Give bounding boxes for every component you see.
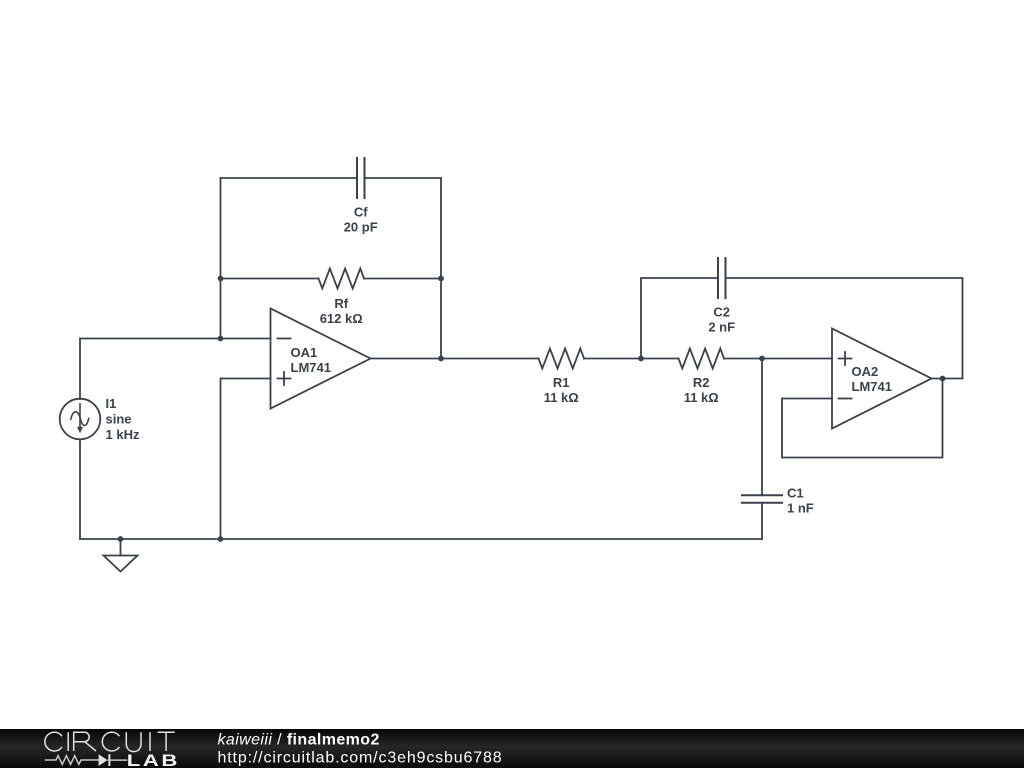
svg-text:I1: I1 (106, 396, 117, 411)
svg-text:2 nF: 2 nF (708, 320, 735, 335)
svg-text:OA1: OA1 (291, 345, 318, 360)
node A: inverting input junction (218, 336, 224, 342)
wire: Cf top left (221, 177, 358, 179)
svg-text:R1: R1 (553, 375, 570, 390)
node: R1-R2 junction (638, 356, 644, 362)
wire: Rf left (221, 278, 319, 280)
wire: OA1 minus input row (80, 338, 271, 340)
label R2 value (684, 375, 719, 405)
svg-text:1 nF: 1 nF (787, 501, 814, 516)
wire: C2 right to output column (726, 278, 963, 379)
op-amp OA2 (832, 329, 932, 429)
svg-text:11 kΩ: 11 kΩ (684, 390, 719, 405)
label C1 value (787, 486, 814, 516)
label I1 (106, 396, 140, 442)
wire: R2 to OA2 plus input (724, 358, 832, 360)
svg-text:612 kΩ: 612 kΩ (320, 311, 363, 326)
svg-text:OA2: OA2 (852, 364, 879, 379)
ground (104, 539, 138, 572)
node: ground junction (118, 536, 124, 542)
wire: OA2 output (932, 378, 963, 380)
label Cf value (344, 205, 378, 235)
wire: C1 bottom to rail (761, 503, 763, 539)
svg-text:LM741: LM741 (852, 379, 892, 394)
wire: OA1 output (371, 358, 539, 360)
node: OA1 output junction (438, 356, 444, 362)
capacitor Cf (357, 158, 365, 198)
wire: left column up to feedback (220, 178, 222, 339)
resistor Rf (319, 269, 365, 289)
wire: source bottom vertical (79, 440, 81, 539)
label Rf value (320, 296, 363, 326)
label OA2 (852, 364, 892, 394)
node: OA2 output junction (940, 376, 946, 382)
svg-text:C2: C2 (713, 305, 730, 320)
svg-text:Cf: Cf (354, 205, 368, 220)
wire: OA1 plus input (221, 379, 271, 540)
CircuitLab logo text CIRCUIT (hand-drawn thin letters) (45, 732, 175, 751)
svg-text:LAB: LAB (127, 751, 180, 768)
node: Rf left junction (218, 276, 224, 282)
svg-text:Rf: Rf (334, 296, 348, 311)
svg-text:kaiweiii / finalmemo2: kaiweiii / finalmemo2 (218, 732, 380, 749)
label C2 value (708, 305, 735, 335)
label OA1 (291, 345, 331, 375)
CircuitLab logo resistor-diode glyph (45, 754, 128, 766)
wire: Cf top right (365, 177, 442, 179)
svg-text:sine: sine (106, 412, 132, 427)
svg-text:http://circuitlab.com/c3eh9csb: http://circuitlab.com/c3eh9csbu6788 (218, 750, 503, 767)
wire: Cf right vertical down (440, 178, 442, 359)
wire: bottom ground rail (80, 538, 762, 540)
wire: Rf right (364, 278, 441, 280)
wire: source top vertical (79, 339, 81, 400)
label R1 value (544, 375, 579, 405)
svg-text:C1: C1 (787, 486, 804, 501)
current source I1 (60, 399, 101, 440)
svg-text:1 kHz: 1 kHz (106, 427, 140, 442)
wire: C1 branch top (761, 359, 763, 496)
op-amp OA1 (271, 309, 371, 409)
svg-text:R2: R2 (693, 375, 710, 390)
capacitor C2 (718, 258, 726, 298)
node: Rf right junction (438, 276, 444, 282)
wire: R1 to R2 (584, 358, 679, 360)
resistor R2 (679, 349, 724, 369)
svg-text:LM741: LM741 (291, 360, 331, 375)
node: plus input to ground rail (218, 536, 224, 542)
resistor R1 (539, 349, 584, 369)
wire: C2 branch up and left (641, 278, 718, 359)
svg-text:11 kΩ: 11 kΩ (544, 390, 579, 405)
node: R2 output junction (759, 356, 765, 362)
svg-text:20 pF: 20 pF (344, 220, 378, 235)
capacitor C1 (742, 495, 782, 503)
wire: OA2 feedback loop (782, 379, 943, 458)
